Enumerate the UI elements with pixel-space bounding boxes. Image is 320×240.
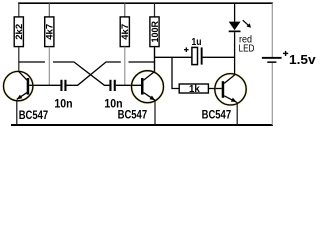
transistor Q1 collector line [19,72,27,81]
capacitor C3 plus sign [184,47,189,52]
wire LED column from rail to diode [234,3,236,22]
capacitor C1 10n plates [60,80,66,91]
wire Q2 emitter to ground rail [154,100,156,125]
svg-text:4k7: 4k7 [120,24,130,40]
transistor Q1 emitter line [17,93,27,100]
transistor Q3 collector line [224,75,235,84]
resistor R4 body 100R [150,17,159,47]
wire C2 to Q2 base [116,84,141,86]
svg-text:BC547: BC547 [118,108,148,122]
battery plus sign [283,51,288,56]
transistor Q1 emitter arrow [17,95,23,100]
resistor R3 body 4k7 [120,17,129,47]
transistor Q2 circle [132,71,164,103]
svg-text:2k2: 2k2 [14,24,24,40]
transistor Q3 emitter line [224,96,237,103]
diode D1 cathode bar [229,31,241,33]
svg-text:LED: LED [239,44,255,55]
transistor Q2 emitter arrow [150,96,156,101]
transistor Q1 base bar [27,78,30,95]
wire Q1 emitter to ground rail [16,100,18,125]
transistor Q3 emitter arrow [231,98,237,102]
transistor Q3 base bar [222,81,225,98]
wire R3 lead to Q2 base node [124,47,126,86]
wire R1 lead to Q1 collector [18,47,20,72]
wire R4 lead to Q2 collector [154,47,156,72]
svg-text:100R: 100R [150,21,160,43]
battery B1 plates [262,57,282,63]
transistor Q3 circle (yellow jpeg fringe) [215,74,246,105]
resistor R1 body 2k2 [14,17,23,47]
diode D1 emission arrow [243,20,251,28]
wire LED to Q3 collector [234,32,236,75]
transistor Q2 collector line [144,72,155,81]
wire Q1 base to C1 [29,84,60,86]
wire drop to 1k resistor [172,57,179,88]
resistor R4 stub wire [154,3,156,17]
svg-text:BC547: BC547 [202,108,232,122]
svg-text:10n: 10n [54,96,72,110]
transistor Q2 base bar [141,78,144,95]
svg-text:4k7: 4k7 [45,24,55,40]
wire R2 lead to Q1 base node [48,47,50,86]
resistor R2 body 4k7 [45,17,54,47]
wire C3 to LED column [203,56,235,58]
wire 1k to Q3 base [208,88,221,90]
transistor Q2 circle (yellow jpeg fringe) [132,71,164,103]
diode D1 LED triangle [229,22,241,31]
transistor Q1 circle [4,71,33,100]
wire battery column lower [271,63,273,125]
wire bottom ground rail [11,124,273,126]
wire Q2 collector node to 1u cap [155,56,193,58]
wire cross-coupling B from C1 to Q2 collector node (hop over R3 lead) [67,62,155,85]
wire cross-coupling A from Q1 collector to C2 (hop over R2 lead) [19,62,110,85]
svg-text:1u: 1u [192,37,202,48]
transistor Q2 emitter line [144,93,156,101]
svg-text:BC547: BC547 [19,108,49,122]
resistor R2 stub wire [48,3,50,17]
wire battery column upper [271,3,273,57]
capacitor C2 10n plates [109,80,115,91]
svg-text:1k: 1k [189,84,200,95]
transistor Q3 circle [215,74,246,105]
resistor R5 1k body [179,84,208,93]
wire top supply rail [18,2,273,4]
wire Q3 emitter to ground rail [236,103,238,125]
transistor Q1 circle (yellow jpeg fringe) [4,71,33,100]
svg-text:1.5v: 1.5v [289,52,316,67]
resistor R1 stub wire [18,3,20,17]
capacitor C3 1u electrolytic plates [192,47,198,64]
resistor R3 stub wire [124,3,126,17]
